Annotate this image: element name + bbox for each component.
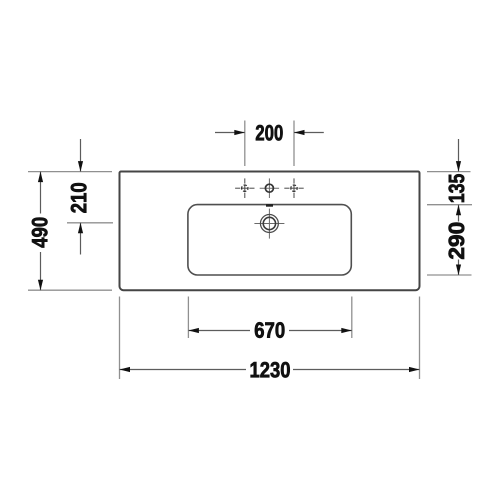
extension lines for 490 dimension — [28, 172, 112, 291]
dimension 135 label — [449, 174, 465, 202]
dimension 290 label — [449, 223, 465, 259]
dimension 490 arrowheads — [38, 172, 43, 183]
faucet hole crosshair — [254, 209, 284, 239]
right optional hole crosshair (centerline) — [284, 178, 303, 198]
dimension 210 outside arrow tails — [80, 139, 82, 255]
washbasin outer outline — [120, 172, 420, 291]
dimension 1230 arrowheads — [120, 367, 131, 372]
dimension 200 arrowheads — [234, 130, 245, 135]
extension line for 210 dimension — [67, 222, 113, 224]
dimension 490 label — [32, 218, 48, 248]
dimension 490 line — [40, 172, 42, 291]
extension lines for 135 dimension — [427, 172, 472, 205]
dimension 135 arrowhead — [456, 161, 461, 172]
dimension 670 line — [188, 330, 351, 332]
faucet hole outer circle — [260, 215, 278, 233]
left optional hole crosshair (centerline) — [235, 178, 254, 198]
dimension 1230 line — [120, 369, 420, 371]
dimension 135 outside arrow tail — [458, 139, 460, 172]
overflow tick — [266, 204, 273, 207]
left optional hole circle (dashed) — [242, 185, 248, 191]
dimension 210 label — [71, 183, 87, 213]
dimension 210 arrowheads — [78, 161, 83, 172]
dimension 670 arrowheads — [188, 328, 199, 333]
extension line for 290 dimension bottom — [427, 274, 472, 276]
dimension 290 line — [458, 205, 460, 275]
dimension 290 arrowheads — [456, 205, 461, 216]
inner basin outline — [188, 205, 351, 275]
extension lines for 670 dimension — [188, 297, 351, 339]
center deck hole crosshair — [260, 178, 279, 198]
right optional hole circle (dashed) — [291, 185, 297, 191]
faucet hole inner circle — [263, 217, 275, 229]
dimension 200 arrow tails — [215, 132, 324, 134]
dimension 1230 label — [251, 362, 290, 378]
extension lines for 200 dimension — [245, 121, 294, 167]
center deck hole circle — [265, 184, 273, 192]
dimension 200 label — [256, 125, 283, 141]
extension lines for 1230 dimension — [120, 297, 420, 380]
dimension 670 label — [255, 322, 285, 338]
